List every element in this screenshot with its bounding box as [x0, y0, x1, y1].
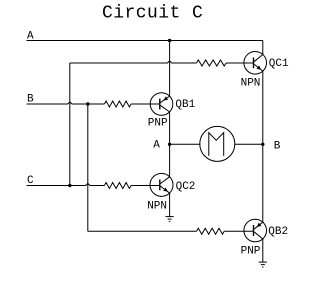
wire QB2 collector to ground	[262, 239, 264, 262]
junction node B (motor right)	[261, 143, 264, 146]
svg-text:Circuit C: Circuit C	[102, 4, 203, 24]
svg-text:QB2: QB2	[268, 226, 288, 238]
transistor QC2 (NPN)	[150, 173, 173, 196]
motor M	[200, 126, 235, 161]
wire input A horizontal rail	[27, 40, 263, 42]
wire QB1 collector down to node A	[169, 112, 171, 177]
wire input B with hop over left bus	[27, 102, 105, 104]
wire resistor to QB2 base bar	[224, 230, 253, 232]
svg-text:NPN: NPN	[241, 78, 261, 90]
transistor QB2 (PNP)	[244, 219, 267, 242]
wire motor to node B	[235, 143, 263, 145]
resistor R-QB1 base	[104, 101, 131, 107]
wire resistor to QC2 base bar	[131, 185, 160, 187]
wire resistor to QB1 base bar	[131, 103, 160, 105]
resistor R-QC2 base	[104, 183, 131, 189]
junction C wire to upper-left bus	[68, 184, 71, 187]
wire right vertical QC1 emitter to QB2 emitter through node B	[262, 71, 264, 222]
wire lower-left bus B to bottom row (vertical)	[87, 104, 89, 231]
junction A rail to QB1 emitter branch	[168, 39, 171, 42]
resistor R-QC1 base	[196, 60, 226, 66]
junction B wire to lower-left bus	[86, 102, 89, 105]
svg-text:QB1: QB1	[175, 99, 195, 111]
wire vertical A rail down to QB1 emitter	[169, 41, 171, 97]
wire bottom row from bus corner to QB2 base resistor	[88, 230, 197, 232]
svg-text:QC1: QC1	[269, 58, 289, 70]
svg-text:NPN: NPN	[147, 201, 167, 213]
wire QC1 base row with hop over QB1-emitter vertical	[70, 61, 197, 63]
ground below QB2	[259, 262, 267, 267]
transistor QB1 (PNP)	[150, 93, 173, 116]
transistor QC1 (NPN)	[244, 52, 267, 75]
resistor R-QB2 base	[197, 228, 225, 234]
svg-text:QC2: QC2	[176, 181, 196, 193]
svg-text:PNP: PNP	[241, 246, 261, 258]
wire resistor to QC1 base bar	[226, 62, 253, 64]
svg-text:PNP: PNP	[148, 118, 168, 130]
wire QC2 emitter to ground	[169, 193, 171, 217]
wire node A to motor	[170, 143, 200, 145]
wire input C with hop over bus to QB2	[27, 183, 105, 185]
svg-text:A: A	[153, 139, 160, 151]
svg-text:B: B	[274, 140, 281, 152]
wire right vertical from A rail to QC1 collector	[262, 41, 264, 55]
ground below QC2	[166, 217, 174, 222]
wire left bus from QC1-row corner down to C wire	[69, 63, 71, 186]
junction node A (motor left)	[168, 143, 171, 146]
